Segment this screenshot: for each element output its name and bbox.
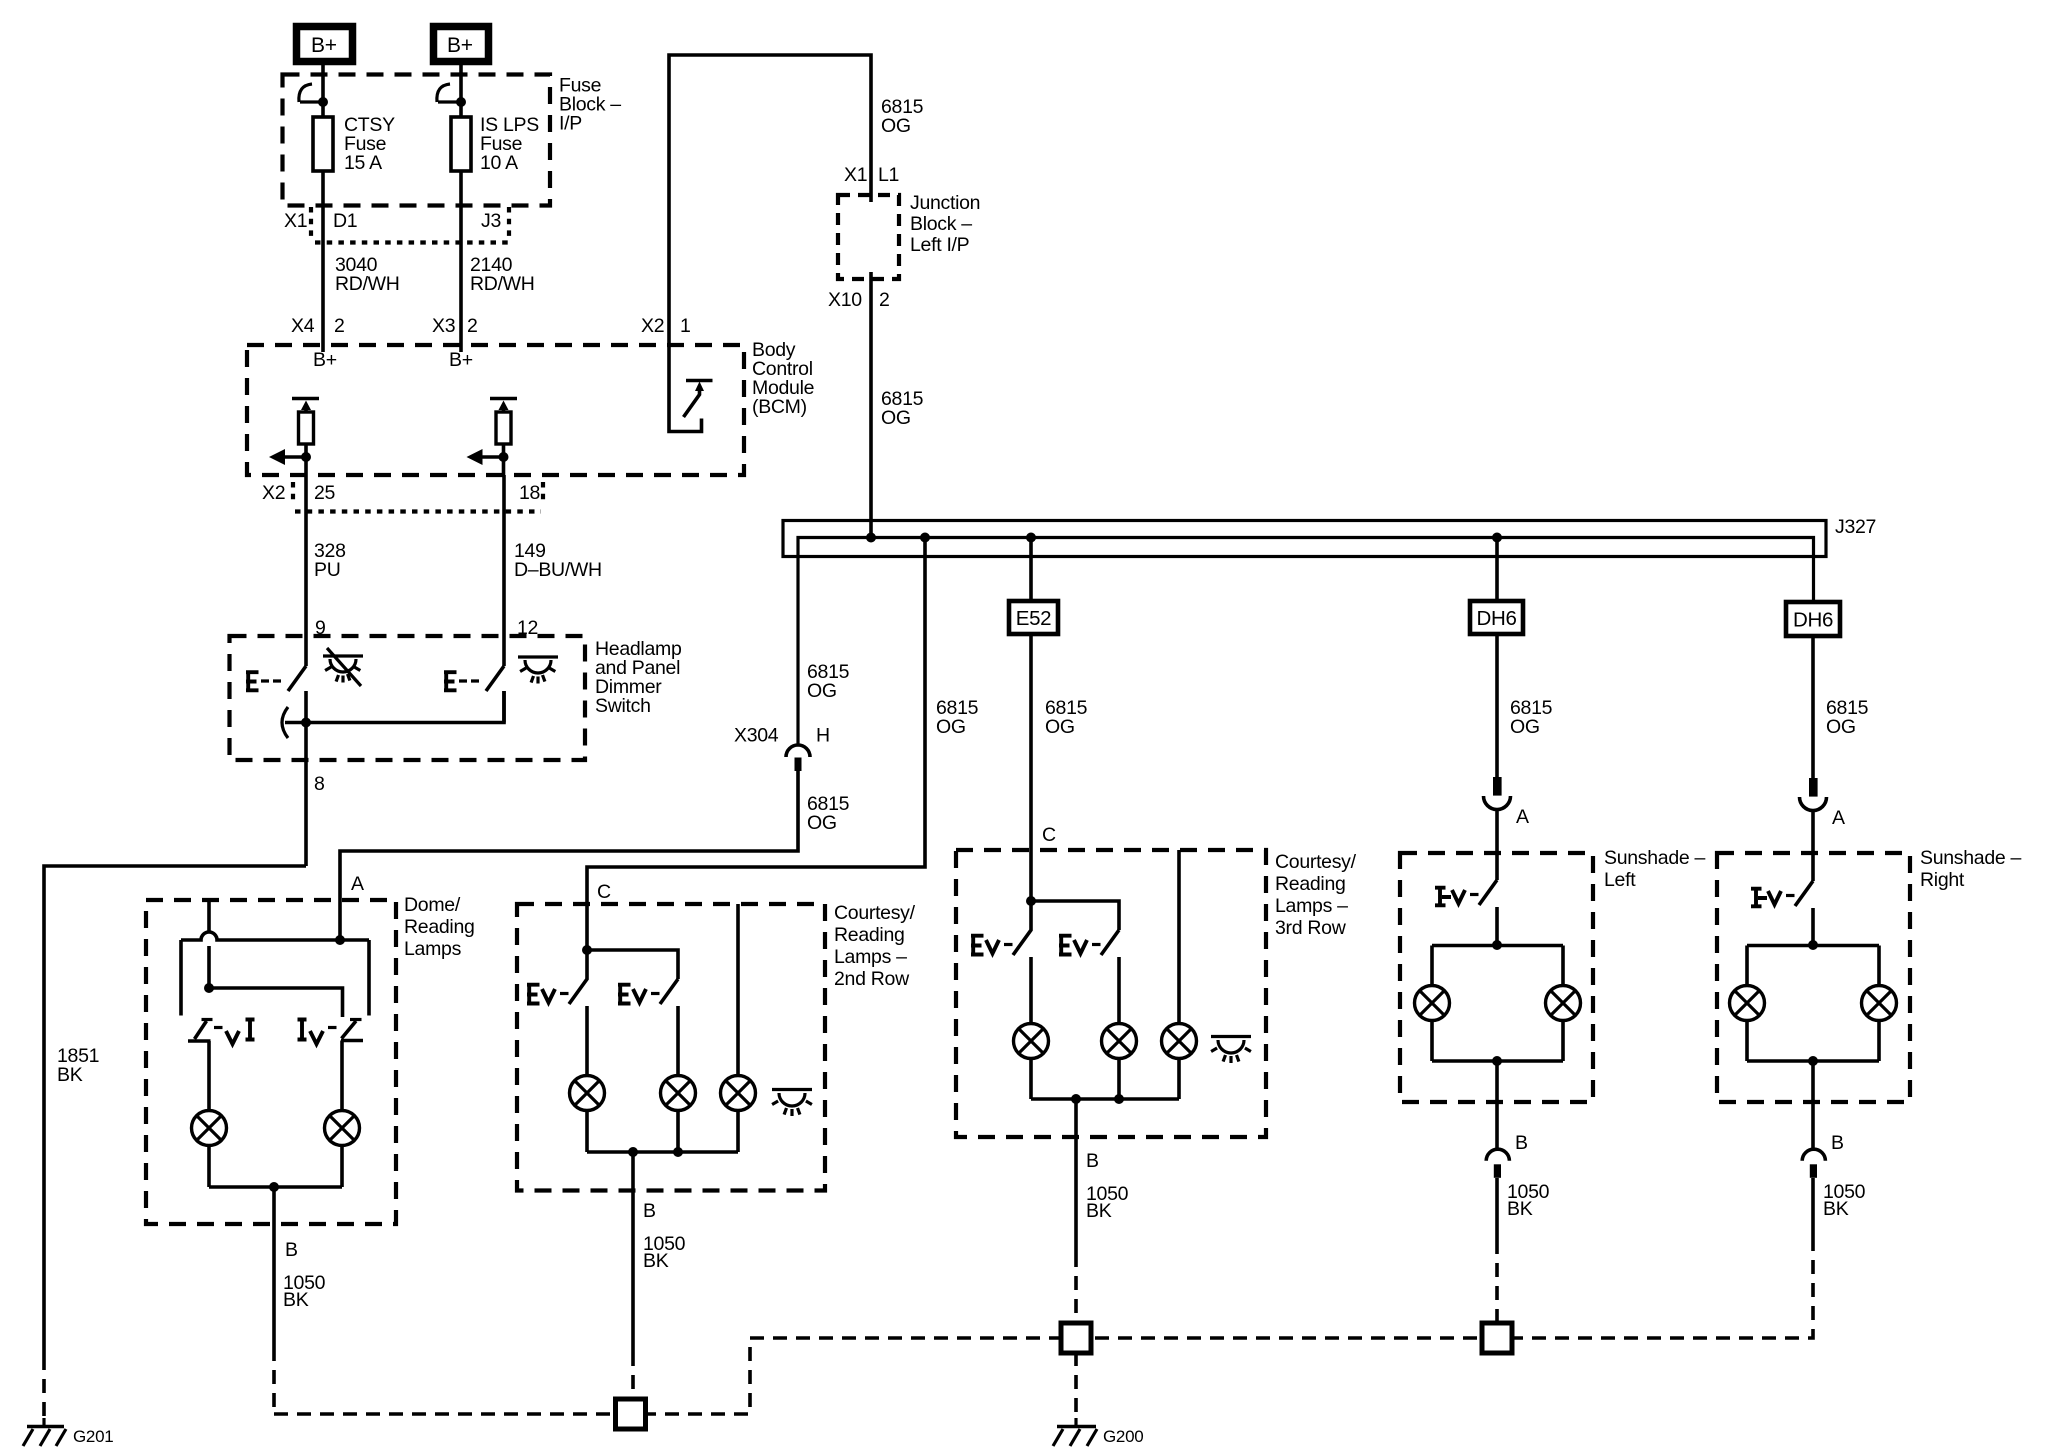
courtesy 3rd row label <box>1275 851 1357 939</box>
wire 8 output <box>304 723 308 867</box>
dome lamp bottom wires <box>209 1146 342 1188</box>
sunshade left lamp 2 <box>1546 986 1581 1021</box>
svg-text:8: 8 <box>314 773 325 795</box>
dome ground wire dashed <box>272 1347 276 1414</box>
inline connector A sunshade left <box>1484 777 1530 828</box>
svg-text:BK: BK <box>57 1064 83 1086</box>
svg-text:BK: BK <box>1507 1198 1533 1220</box>
ground G200 <box>1053 1418 1143 1446</box>
label 6815 OG 3rd row <box>1045 697 1088 738</box>
label 6815 OG below X304 <box>807 793 850 834</box>
3rd row switch middle <box>1059 930 1119 1024</box>
sunshade right lamp 2 <box>1862 986 1897 1021</box>
fuse block I/P label <box>559 75 621 135</box>
wire 6815 OG DH6 left <box>1495 634 1499 777</box>
wire 1851 BK dashed tail <box>42 1356 46 1424</box>
dome node A junction <box>335 935 345 945</box>
2nd row right branch wire <box>736 904 740 1076</box>
3rd row ground wire dashed <box>1074 1253 1078 1420</box>
headlamp and panel dimmer switch outline <box>230 636 586 760</box>
BCM pin X4-2 <box>291 315 345 337</box>
sunshade right node junction <box>1808 940 1818 950</box>
fuse block I/P outline <box>283 75 551 206</box>
svg-text:OG: OG <box>1826 716 1856 738</box>
wire B+ to fuse IS LPS <box>459 65 463 352</box>
svg-text:G201: G201 <box>73 1427 113 1446</box>
svg-text:OG: OG <box>807 680 837 702</box>
dome switch left (override) <box>188 1019 255 1045</box>
sunshade right switch <box>1751 881 1813 945</box>
svg-text:B+: B+ <box>449 349 473 371</box>
3rd row switch left <box>971 901 1031 1024</box>
svg-text:Lamps –: Lamps – <box>1275 895 1348 917</box>
label 328 PU <box>314 540 346 581</box>
3rd row bottom rail <box>1031 1097 1179 1101</box>
inline connector A sunshade right <box>1800 778 1846 829</box>
BCM internal switch on X2-1 <box>669 345 713 432</box>
svg-text:Switch: Switch <box>595 695 651 717</box>
svg-text:Reading: Reading <box>1275 873 1346 895</box>
courtesy reading lamps 3rd row outline <box>956 850 1266 1137</box>
svg-text:B: B <box>1515 1132 1528 1154</box>
svg-text:C: C <box>1042 824 1056 846</box>
connector DH6 right <box>1786 602 1840 636</box>
wire 6815 OG DH6 right <box>1811 636 1815 778</box>
fuse CTSY label <box>344 114 395 174</box>
courtesy reading lamps 2nd row outline <box>517 904 825 1191</box>
dome switch contact (pin 12) <box>444 666 504 723</box>
svg-text:B+: B+ <box>447 34 473 57</box>
BCM driver element 2 (supply bar, resistor, output arrow) <box>467 399 518 476</box>
svg-text:OG: OG <box>881 407 911 429</box>
svg-text:OG: OG <box>936 716 966 738</box>
3rd row right branch wire <box>1177 850 1181 1024</box>
junction block label <box>910 192 980 256</box>
svg-text:PU: PU <box>314 559 341 581</box>
sunshade right wire to B connector <box>1811 1061 1815 1149</box>
svg-text:X1: X1 <box>284 210 307 232</box>
svg-text:2: 2 <box>879 289 890 311</box>
dome lamp right <box>325 1111 360 1146</box>
inline connector B sunshade left <box>1486 1149 1509 1178</box>
wire 1851 BK to ground <box>44 866 306 1356</box>
sunshade right label <box>1920 847 2022 891</box>
svg-text:X10: X10 <box>828 289 862 311</box>
sunshade left lamp loop bottom <box>1432 1021 1563 1062</box>
svg-text:Dome/: Dome/ <box>404 894 461 916</box>
BCM driver element 1 (supply bar, resistor, output arrow) <box>269 399 319 476</box>
label 6815 OG top <box>881 96 924 137</box>
2nd row wire B output <box>631 1152 635 1352</box>
sunshade left wire to B connector <box>1495 1061 1499 1149</box>
sunshade right bottom junction <box>1808 1056 1818 1066</box>
wire 2140 RD/WH label <box>470 254 535 295</box>
junction block pin X1 L1 <box>844 164 899 186</box>
svg-text:A: A <box>1516 806 1529 828</box>
sunshade left lamp loop top <box>1432 946 1563 986</box>
dome lamp left <box>192 1111 227 1146</box>
dome node stub junction <box>204 983 214 993</box>
wire B+ to fuse CTSY <box>321 65 325 352</box>
junction block pin X10 2 <box>828 289 890 311</box>
dome feed rail with crossover hop <box>181 932 369 940</box>
wire 6815 OG X304 to dome lamps <box>340 771 798 940</box>
dome switch right (door) <box>298 1019 364 1045</box>
svg-text:Left: Left <box>1604 869 1636 891</box>
3rd row lamp middle <box>1102 1024 1137 1059</box>
svg-text:RD/WH: RD/WH <box>335 273 400 295</box>
power terminal B+ 1 <box>297 27 353 62</box>
svg-text:H: H <box>816 725 830 747</box>
svg-text:Lamps –: Lamps – <box>834 946 907 968</box>
svg-text:A: A <box>351 873 364 895</box>
dome rail left arm <box>179 940 183 1016</box>
dome reading lamps label <box>404 894 475 960</box>
svg-text:D1: D1 <box>333 210 357 232</box>
svg-text:Left I/P: Left I/P <box>910 234 969 256</box>
wire bus to DH6 left <box>1495 538 1499 602</box>
sunshade left label <box>1604 847 1706 891</box>
wire 6815 OG bus to 2nd row lamps <box>587 538 925 951</box>
svg-text:A: A <box>1832 807 1845 829</box>
svg-text:2: 2 <box>334 315 345 337</box>
splice square G200 tap <box>1061 1323 1091 1353</box>
2nd row bottom junctions <box>628 1147 683 1157</box>
2nd row lamp right <box>721 1076 756 1111</box>
svg-text:G200: G200 <box>1103 1427 1143 1446</box>
sunshade right 1050 BK wire <box>1811 1178 1815 1243</box>
svg-text:(BCM): (BCM) <box>752 396 807 418</box>
label 1050 BK 2nd row <box>643 1233 686 1272</box>
3rd row lamp right <box>1162 1024 1197 1059</box>
svg-text:BK: BK <box>1086 1200 1112 1222</box>
J327 bus inner rail <box>798 538 1814 746</box>
svg-text:C: C <box>597 881 611 903</box>
svg-text:RD/WH: RD/WH <box>470 273 535 295</box>
svg-text:X2: X2 <box>262 482 285 504</box>
sunshade left node junction <box>1492 940 1502 950</box>
sunshade right lamp loop bottom <box>1747 1021 1879 1062</box>
svg-text:DH6: DH6 <box>1476 607 1516 630</box>
svg-text:3rd Row: 3rd Row <box>1275 917 1347 939</box>
wire bus to E52 <box>1029 538 1033 602</box>
dome node B junction <box>269 1182 279 1192</box>
2nd row bottom rail <box>587 1150 738 1154</box>
bus node to junction block wire <box>866 533 876 543</box>
2nd row node C junction <box>582 945 592 955</box>
svg-text:Reading: Reading <box>834 924 905 946</box>
dome lamp wire left <box>207 1041 211 1111</box>
bus node DH6 left drop <box>1492 533 1502 543</box>
svg-text:E52: E52 <box>1016 607 1052 630</box>
svg-text:BK: BK <box>643 1250 669 1272</box>
svg-text:DH6: DH6 <box>1793 609 1833 632</box>
2nd row switch left <box>527 950 587 1076</box>
dome second rail <box>209 988 343 1017</box>
svg-text:Block –: Block – <box>910 213 972 235</box>
svg-text:OG: OG <box>881 115 911 137</box>
sunshade left lamp 1 <box>1415 986 1450 1021</box>
inline connector X304 H <box>734 725 830 772</box>
J327 bus outer <box>783 521 1826 557</box>
bus node E52 drop <box>1026 533 1036 543</box>
svg-text:18: 18 <box>519 482 540 504</box>
splice square 2nd row <box>616 1399 646 1429</box>
wire connector to sunshade right switch <box>1811 811 1815 882</box>
interior lamps icon <box>518 657 558 684</box>
2nd row courtesy lamp icon <box>772 1090 812 1117</box>
ground distribution dashed run <box>274 1243 1813 1414</box>
2nd row ground wire dashed <box>631 1352 635 1400</box>
fuse IS LPS 10A symbol <box>437 84 471 171</box>
3rd row lamp bottom wires <box>1031 1059 1179 1100</box>
sunshade left outline <box>1400 853 1593 1102</box>
bus node 2nd row drop <box>920 533 930 543</box>
svg-text:2: 2 <box>467 315 478 337</box>
svg-text:J327: J327 <box>1835 516 1876 538</box>
fuse block connector X1 pins D1 J3 <box>284 207 509 243</box>
power terminal B+ 2 <box>434 27 489 62</box>
junction block outline <box>838 195 899 279</box>
inline connector B sunshade right <box>1802 1149 1825 1178</box>
svg-text:I/P: I/P <box>559 113 582 135</box>
label 149 D-BU/WH <box>514 540 602 581</box>
svg-text:OG: OG <box>1510 716 1540 738</box>
svg-text:Right: Right <box>1920 869 1965 891</box>
wire BCM X2-1 loop to junction block <box>669 55 871 345</box>
sunshade right outline <box>1717 853 1910 1102</box>
svg-text:2nd Row: 2nd Row <box>834 968 910 990</box>
label 6815 OG mid <box>881 388 924 429</box>
svg-text:10 A: 10 A <box>480 152 518 174</box>
sunshade left bottom junction <box>1492 1056 1502 1066</box>
wire 6815 OG E52 to 3rd row lamps <box>1029 634 1033 901</box>
dome wire B output <box>272 1187 276 1347</box>
BCM pin X3-2 <box>432 315 478 337</box>
wire 3040 RD/WH label <box>335 254 400 295</box>
svg-text:B: B <box>1086 1150 1099 1172</box>
BCM outline <box>247 345 744 475</box>
label 1050 BK dome <box>283 1272 326 1311</box>
wire 328 PU <box>304 475 308 666</box>
BCM pin X2-1 <box>641 315 691 337</box>
svg-text:BK: BK <box>1823 1198 1849 1220</box>
wire 6815 OG junction block to J327 <box>869 272 873 538</box>
svg-text:Junction: Junction <box>910 192 980 214</box>
svg-text:Reading: Reading <box>404 916 475 938</box>
label 1050 BK sunshade right <box>1823 1181 1866 1220</box>
svg-text:25: 25 <box>314 482 336 504</box>
splice square sunshade left <box>1482 1323 1512 1353</box>
svg-text:B+: B+ <box>311 34 337 57</box>
svg-text:X4: X4 <box>291 315 315 337</box>
svg-text:D–BU/WH: D–BU/WH <box>514 559 602 581</box>
BCM pin X2-25-18 row <box>262 482 543 512</box>
dome rail right arm <box>367 940 371 1016</box>
wire 149 D-BU/WH <box>502 475 506 666</box>
2nd row top rail <box>587 950 678 979</box>
svg-text:B: B <box>643 1200 656 1222</box>
2nd row lamp middle <box>661 1076 696 1111</box>
3rd row node C junction <box>1026 896 1036 906</box>
svg-text:L1: L1 <box>878 164 899 186</box>
3rd row courtesy lamp icon <box>1211 1037 1251 1064</box>
svg-text:X304: X304 <box>734 725 779 747</box>
svg-text:OG: OG <box>1045 716 1075 738</box>
label 6815 OG sunshade left <box>1510 697 1553 738</box>
svg-text:Courtesy/: Courtesy/ <box>834 902 916 924</box>
fuse CTSY 15A symbol <box>299 84 333 171</box>
svg-text:B: B <box>1831 1132 1844 1154</box>
connector E52 <box>1009 601 1058 634</box>
fuse IS LPS label <box>480 114 539 174</box>
label 6815 OG above X304 <box>807 661 850 702</box>
headlamp switch label <box>595 638 682 717</box>
svg-text:B: B <box>285 1239 298 1261</box>
BCM label <box>752 339 814 418</box>
dome reading lamps outline <box>146 900 396 1224</box>
2nd row switch middle <box>618 979 678 1076</box>
label 1851 BK <box>57 1045 99 1086</box>
3rd row wire B output <box>1074 1099 1078 1253</box>
dome case stub wire <box>207 900 211 988</box>
sunshade left ground wire dashed <box>1495 1240 1499 1324</box>
sunshade left switch <box>1435 880 1497 945</box>
svg-text:X3: X3 <box>432 315 455 337</box>
3rd row bottom junctions <box>1071 1094 1124 1104</box>
panel dimmer lamp icon <box>323 648 363 686</box>
svg-text:Sunshade –: Sunshade – <box>1920 847 2022 869</box>
svg-text:J3: J3 <box>481 210 501 232</box>
label 1050 BK 3rd row <box>1086 1183 1129 1222</box>
wire connector to sunshade left switch <box>1495 810 1499 881</box>
2nd row lamp left <box>570 1076 605 1111</box>
headlamp switch common wire and wiper hook <box>282 691 504 738</box>
svg-text:1: 1 <box>680 315 691 337</box>
sunshade left 1050 BK wire <box>1495 1178 1499 1240</box>
ground G201 <box>23 1418 113 1446</box>
svg-text:OG: OG <box>807 812 837 834</box>
3rd row top rail <box>1031 901 1119 930</box>
label 1050 BK sunshade left <box>1507 1181 1550 1220</box>
label 6815 OG 2nd row <box>936 697 979 738</box>
svg-text:Sunshade –: Sunshade – <box>1604 847 1706 869</box>
label 6815 OG sunshade right <box>1826 697 1869 738</box>
dome bottom rail <box>209 1185 342 1189</box>
svg-text:BK: BK <box>283 1289 309 1311</box>
sunshade right lamp 1 <box>1730 986 1765 1021</box>
svg-text:15 A: 15 A <box>344 152 382 174</box>
svg-text:B+: B+ <box>313 349 337 371</box>
svg-text:X1: X1 <box>844 164 867 186</box>
connector DH6 left <box>1470 601 1523 634</box>
courtesy 2nd row label <box>834 902 916 990</box>
3rd row lamp left <box>1014 1024 1049 1059</box>
2nd row lamp bottom wires <box>587 1111 738 1153</box>
dome lamp wire right <box>340 1041 344 1111</box>
svg-text:X2: X2 <box>641 315 664 337</box>
dimmer switch contact (pin 9) <box>246 666 306 723</box>
sunshade right lamp loop top <box>1747 946 1879 986</box>
svg-text:Courtesy/: Courtesy/ <box>1275 851 1357 873</box>
svg-text:Lamps: Lamps <box>404 938 462 960</box>
